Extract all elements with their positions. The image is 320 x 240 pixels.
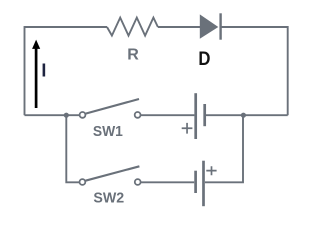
svg-text:SW1: SW1 [93, 124, 123, 140]
current arrow I [32, 40, 40, 108]
wire right side vertical [287, 26, 289, 115]
wire middle-left segment [25, 114, 80, 116]
label + (battery B1) [182, 123, 193, 134]
svg-text:D: D [198, 49, 210, 70]
node junction right [241, 113, 246, 118]
wire top-left segment [25, 26, 108, 28]
wire B2 up to node [205, 115, 243, 182]
svg-text:I: I [41, 61, 46, 81]
svg-text:R: R [127, 46, 139, 63]
wire top-right segment [221, 26, 288, 28]
node junction left [64, 113, 69, 118]
wire branch down to SW2 [66, 115, 79, 182]
wire SW2 to battery B2 [141, 181, 194, 183]
wire B1 to node [206, 114, 288, 116]
battery B1 [196, 93, 205, 139]
diode D [200, 13, 221, 39]
switch SW1 [80, 99, 141, 118]
wire between R and D [158, 26, 200, 28]
wire SW1 to battery B1 [141, 114, 194, 116]
label + (battery B2) [206, 166, 216, 175]
wire left side vertical [24, 26, 26, 115]
svg-text:SW2: SW2 [93, 191, 124, 207]
battery B2 [196, 161, 204, 207]
resistor R [107, 18, 158, 36]
switch SW2 [80, 166, 141, 185]
